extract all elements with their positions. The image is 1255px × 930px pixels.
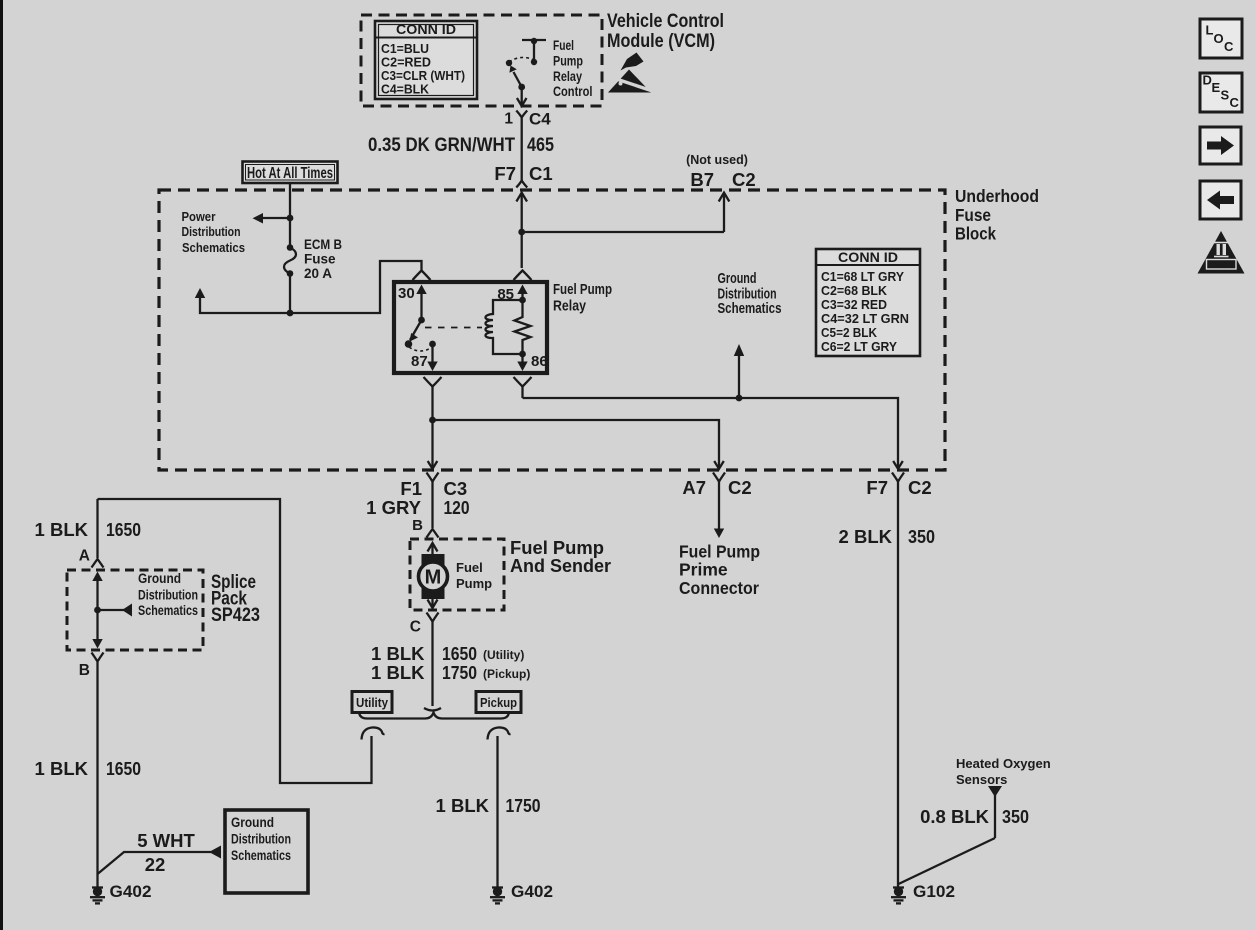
svg-text:Distribution: Distribution xyxy=(138,588,198,603)
label Heated Oxygen Sensors xyxy=(956,756,1051,787)
svg-text:E: E xyxy=(1212,80,1221,95)
pin 87 net: junction and exits xyxy=(429,417,719,461)
svg-text:G402: G402 xyxy=(110,883,152,901)
dashed travel arc to pin 87 xyxy=(409,347,433,351)
svg-text:Ground: Ground xyxy=(231,815,274,830)
svg-text:Relay: Relay xyxy=(553,299,586,315)
connector fork below F1/C3 xyxy=(427,473,439,529)
svg-text:Ground: Ground xyxy=(138,571,181,586)
ESD sensitivity symbol xyxy=(608,53,654,93)
connector fork below relay pin 87 xyxy=(424,377,442,420)
svg-text:And Sender: And Sender xyxy=(510,555,611,576)
svg-text:C1: C1 xyxy=(529,163,553,184)
svg-text:C6=2 LT GRY: C6=2 LT GRY xyxy=(821,339,897,354)
wire label 2 BLK 350 xyxy=(839,526,935,547)
svg-text:Relay: Relay xyxy=(553,69,582,84)
svg-text:20 A: 20 A xyxy=(304,266,332,281)
label Ground Distribution Schematics (fuse block) xyxy=(718,270,782,317)
svg-text:5 WHT: 5 WHT xyxy=(137,830,195,851)
svg-text:2 BLK: 2 BLK xyxy=(839,526,893,547)
svg-text:M: M xyxy=(425,567,442,589)
connector fork below F7/C2 xyxy=(892,473,904,889)
connector C4 pin 1 (fork below VCM border) xyxy=(516,111,527,181)
svg-text:Underhood: Underhood xyxy=(955,186,1039,206)
label B xyxy=(79,662,90,679)
svg-text:(Utility): (Utility) xyxy=(483,648,524,662)
svg-text:Fuel Pump: Fuel Pump xyxy=(553,282,612,298)
label Fuel Pump And Sender xyxy=(510,537,611,576)
relay pin 85 arrow + label xyxy=(497,285,527,304)
ground distribution schematics box xyxy=(225,810,308,893)
connector fork above relay pin 30 xyxy=(413,271,431,281)
svg-text:Pump: Pump xyxy=(456,576,492,591)
wire: switch to VCM border xyxy=(517,87,527,106)
svg-text:F7: F7 xyxy=(494,163,516,184)
relay dashed actuating line xyxy=(425,327,482,329)
svg-text:Fuel: Fuel xyxy=(553,38,574,53)
svg-text:1750: 1750 xyxy=(442,662,477,683)
splice ground distribution stub arrow xyxy=(98,604,133,617)
fuel pump relay control switch (in VCM) xyxy=(506,38,546,91)
svg-text:Power: Power xyxy=(182,210,216,224)
heated oxygen feed triangle xyxy=(899,786,1003,884)
pickup branch connector cup xyxy=(488,727,511,739)
label Underhood Fuse Block xyxy=(955,186,1039,244)
splice pack internal arrows xyxy=(92,572,102,649)
svg-text:Schematics: Schematics xyxy=(182,241,245,255)
relay coil resistor xyxy=(515,300,531,354)
svg-text:C2: C2 xyxy=(732,169,756,190)
svg-text:CONN ID: CONN ID xyxy=(838,250,898,265)
svg-text:C2: C2 xyxy=(908,477,932,498)
label Fuel Pump Relay Control xyxy=(553,38,593,99)
VCM module dashed box xyxy=(361,15,602,106)
label Power Distribution Schematics xyxy=(182,210,246,255)
ground G102 xyxy=(891,883,955,903)
svg-text:B7: B7 xyxy=(690,169,714,190)
wire label 0.35 DK GRN/WHT 465 xyxy=(368,135,554,156)
fuse block dashed box xyxy=(159,190,945,470)
svg-text:G102: G102 xyxy=(913,883,955,901)
Pickup tag box xyxy=(476,692,521,713)
wire label 0.8 BLK 350 xyxy=(920,806,1029,827)
svg-text:(Not used): (Not used) xyxy=(686,153,748,167)
svg-text:C3=32 RED: C3=32 RED xyxy=(821,297,887,312)
label F1 / C3 xyxy=(400,478,467,499)
OBD II triangle icon xyxy=(1198,231,1245,274)
LOC icon xyxy=(1200,19,1242,58)
wire: hot feed down from label xyxy=(287,183,294,248)
svg-text:Heated Oxygen: Heated Oxygen xyxy=(956,756,1051,771)
label ECM B Fuse 20 A xyxy=(304,237,342,281)
svg-text:1: 1 xyxy=(504,111,513,128)
svg-text:Fuel: Fuel xyxy=(456,560,483,575)
svg-text:C4=32 LT GRN: C4=32 LT GRN xyxy=(821,311,909,326)
connector fork above relay pin 85 xyxy=(514,271,532,281)
svg-text:B: B xyxy=(79,662,90,679)
svg-text:350: 350 xyxy=(908,526,935,547)
svg-text:C: C xyxy=(1224,39,1234,54)
svg-text:C2: C2 xyxy=(728,477,752,498)
brace splitting to utility/pickup xyxy=(359,711,509,719)
label Fuel Pump Prime Connector xyxy=(679,542,760,599)
wire below motor with arrow xyxy=(428,599,438,608)
previous page arrow icon xyxy=(1200,181,1241,219)
svg-text:SP423: SP423 xyxy=(211,605,260,626)
power distribution arrow left xyxy=(253,213,291,224)
svg-text:Sensors: Sensors xyxy=(956,772,1007,787)
svg-text:22: 22 xyxy=(145,854,166,875)
svg-text:C: C xyxy=(410,619,421,636)
svg-text:0.35 DK GRN/WHT: 0.35 DK GRN/WHT xyxy=(368,135,515,156)
relay pin 30 arrow + label xyxy=(398,285,427,324)
svg-text:1 BLK: 1 BLK xyxy=(35,519,89,540)
connector table CONN ID (VCM) xyxy=(375,21,477,99)
svg-text:Schematics: Schematics xyxy=(138,603,198,618)
label C xyxy=(410,619,421,636)
DESC icon xyxy=(1200,73,1242,113)
svg-text:C: C xyxy=(1230,95,1240,110)
svg-text:C3: C3 xyxy=(444,478,468,499)
svg-text:0.8 BLK: 0.8 BLK xyxy=(920,806,990,827)
connector C1 F7 (fork above fuse block border) xyxy=(516,181,527,188)
svg-text:Fuse: Fuse xyxy=(304,252,336,267)
connector fork below relay pin 86 xyxy=(514,377,532,398)
wire: into fuse block, arrow up xyxy=(516,193,527,268)
relay pin 87 xyxy=(411,341,438,371)
connector fork below pump box (C) xyxy=(427,613,439,707)
svg-text:F7: F7 xyxy=(866,477,888,498)
svg-text:O: O xyxy=(1214,31,1224,46)
label B xyxy=(412,517,423,534)
label Splice Pack SP423 xyxy=(211,572,260,626)
fuel pump and sender dashed box xyxy=(410,539,504,610)
svg-text:F1: F1 xyxy=(400,478,422,499)
svg-text:350: 350 xyxy=(1002,806,1029,827)
svg-text:86: 86 xyxy=(531,353,548,370)
svg-text:C2=68 BLK: C2=68 BLK xyxy=(821,283,888,298)
svg-text:C1=68 LT GRY: C1=68 LT GRY xyxy=(821,269,904,284)
wire label 1 GRY 120 xyxy=(366,497,469,518)
svg-text:Distribution: Distribution xyxy=(231,832,291,847)
svg-text:465: 465 xyxy=(527,135,554,156)
wire labels 1 BLK 1650 (Utility) / 1 BLK 1750 (Pickup) xyxy=(371,643,530,683)
svg-text:Control: Control xyxy=(553,84,593,99)
label A7 / C2 xyxy=(682,477,751,498)
svg-text:1 GRY: 1 GRY xyxy=(366,497,421,518)
label 1 / C4 xyxy=(504,110,551,129)
svg-text:Fuel Pump: Fuel Pump xyxy=(679,542,760,562)
label Fuel Pump (inside box) xyxy=(456,560,492,591)
connector fork above fuel pump box (B) xyxy=(427,529,439,538)
svg-text:Connector: Connector xyxy=(679,578,759,598)
svg-text:A: A xyxy=(79,548,90,565)
connector fork below splice pack (B) xyxy=(92,653,104,889)
svg-text:C4: C4 xyxy=(529,110,551,129)
label Fuel Pump Relay xyxy=(553,282,612,315)
svg-text:G402: G402 xyxy=(511,883,553,901)
connector table CONN ID (fuse block) xyxy=(816,249,920,356)
junction below fuse xyxy=(287,310,294,317)
svg-text:30: 30 xyxy=(398,285,415,302)
svg-text:Hot At All Times: Hot At All Times xyxy=(247,165,333,182)
svg-text:1650: 1650 xyxy=(442,643,477,664)
svg-text:B: B xyxy=(412,517,423,534)
fuel pump motor M xyxy=(419,543,448,599)
splice pack SP423 dashed box xyxy=(67,570,203,650)
branch 5 WHT 22 to ground distribution xyxy=(98,830,222,875)
utility branch connector cup xyxy=(362,727,385,739)
svg-text:Prime: Prime xyxy=(679,560,728,580)
wire label 1 BLK 1750 (pickup drop) xyxy=(436,795,541,816)
svg-text:Vehicle Control: Vehicle Control xyxy=(607,11,724,32)
svg-text:1 BLK: 1 BLK xyxy=(371,643,425,664)
svg-text:Schematics: Schematics xyxy=(718,300,782,317)
scan edge line left xyxy=(0,0,3,930)
svg-text:Pickup: Pickup xyxy=(480,695,517,710)
label F7 / C1 xyxy=(494,163,552,184)
svg-text:1650: 1650 xyxy=(106,758,141,779)
power distribution arrow up-left branch xyxy=(195,288,290,313)
wire: fuse to relay pin 30 xyxy=(290,261,422,313)
svg-text:Module (VCM): Module (VCM) xyxy=(607,31,715,52)
wire: pickup branch down to ground xyxy=(496,736,498,888)
svg-text:Schematics: Schematics xyxy=(231,848,291,863)
exit arrow A7/C2 xyxy=(714,461,724,469)
exit arrow F7/C2 xyxy=(893,461,903,469)
label Vehicle Control Module (VCM) xyxy=(607,11,724,52)
svg-text:1 BLK: 1 BLK xyxy=(371,662,425,683)
svg-text:1 BLK: 1 BLK xyxy=(436,795,490,816)
svg-text:ECM B: ECM B xyxy=(304,237,342,252)
ground G402 (pickup) xyxy=(490,883,553,903)
next page arrow icon xyxy=(1200,127,1241,164)
fuse ECM B 20A xyxy=(284,244,296,313)
svg-text:1750: 1750 xyxy=(506,795,541,816)
pin 86 net to F7/C2 exit xyxy=(523,395,899,461)
Hot At All Times label xyxy=(243,162,338,184)
connector fork above splice pack (A) xyxy=(92,559,104,568)
label F7 / C2 xyxy=(866,477,931,498)
svg-text:D: D xyxy=(1203,73,1212,88)
svg-text:(Pickup): (Pickup) xyxy=(483,667,530,681)
relay coil xyxy=(486,300,523,354)
svg-text:C5=2 BLK: C5=2 BLK xyxy=(821,325,878,340)
svg-text:L: L xyxy=(1206,23,1214,38)
svg-text:A7: A7 xyxy=(682,477,706,498)
svg-text:S: S xyxy=(1221,88,1230,103)
svg-text:Utility: Utility xyxy=(356,695,389,710)
wire label 1 BLK 1650 (lower) xyxy=(35,758,141,779)
svg-text:1 BLK: 1 BLK xyxy=(35,758,89,779)
wire down from feed, label 1 BLK 1650 xyxy=(96,499,98,558)
svg-text:1650: 1650 xyxy=(106,519,141,540)
cup terminal at end of C wire xyxy=(424,708,441,711)
relay pin 86 xyxy=(517,351,547,371)
label A xyxy=(79,548,90,565)
relay switch arm xyxy=(405,320,422,348)
exit arrow F1/C3 xyxy=(428,461,438,469)
svg-text:87: 87 xyxy=(411,353,428,370)
svg-text:Fuse: Fuse xyxy=(955,205,991,225)
svg-text:120: 120 xyxy=(444,497,470,518)
label Ground Distribution Schematics (splice) xyxy=(138,571,198,618)
ground G402 (left) xyxy=(90,883,152,903)
svg-text:Block: Block xyxy=(955,224,996,244)
svg-text:Pump: Pump xyxy=(553,54,583,69)
(Not used) B7 C2 branch xyxy=(522,153,756,232)
ground distribution reference arrow up xyxy=(734,344,744,398)
fuel pump relay box xyxy=(394,282,547,373)
wire: utility branch to splice feed xyxy=(98,499,372,783)
svg-text:CONN ID: CONN ID xyxy=(396,22,456,37)
svg-text:Distribution: Distribution xyxy=(182,225,241,239)
Utility tag box xyxy=(352,692,392,713)
svg-text:C4=BLK: C4=BLK xyxy=(381,82,430,97)
svg-text:OBD II: OBD II xyxy=(1208,261,1234,270)
